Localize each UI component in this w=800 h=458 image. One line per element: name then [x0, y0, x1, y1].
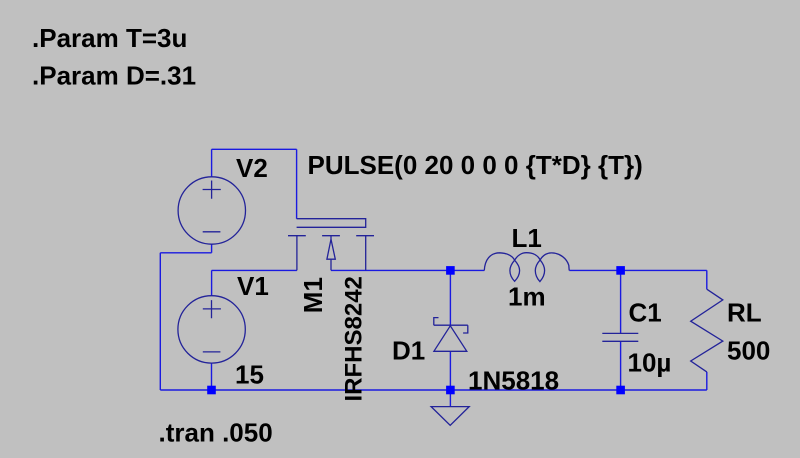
svg-text:1N5818: 1N5818: [468, 365, 559, 395]
svg-text:RL: RL: [727, 298, 762, 328]
svg-text:15: 15: [235, 360, 264, 390]
svg-text:V2: V2: [236, 153, 268, 183]
svg-text:1m: 1m: [508, 281, 546, 311]
svg-text:D1: D1: [392, 335, 425, 365]
svg-text:L1: L1: [512, 223, 542, 253]
svg-text:.Param D=.31: .Param D=.31: [32, 61, 196, 91]
svg-text:10µ: 10µ: [628, 348, 672, 378]
svg-text:.tran .050: .tran .050: [159, 417, 273, 447]
svg-text:C1: C1: [629, 298, 662, 328]
svg-text:.Param T=3u: .Param T=3u: [32, 23, 187, 53]
svg-text:IRFHS8242: IRFHS8242: [340, 276, 367, 401]
svg-text:M1: M1: [298, 277, 328, 313]
svg-text:PULSE(0 20 0 0 0 {T*D} {T}): PULSE(0 20 0 0 0 {T*D} {T}): [308, 150, 643, 180]
svg-text:V1: V1: [237, 271, 269, 301]
svg-text:500: 500: [727, 336, 770, 366]
